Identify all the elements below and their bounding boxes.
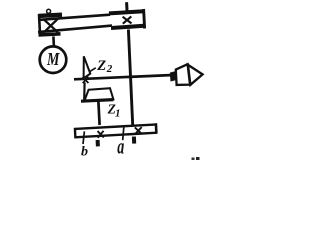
page artifact bottom right <box>192 158 195 161</box>
svg-text:M: M <box>46 51 60 70</box>
stub below bar left <box>96 140 100 146</box>
bottom bar bottom edge <box>75 133 157 138</box>
right bearing top cap <box>109 11 144 13</box>
vertical link below junction <box>83 83 86 101</box>
leader to b <box>83 131 84 144</box>
label a <box>117 134 124 158</box>
leader to a <box>123 127 124 140</box>
svg-text:2: 2 <box>106 63 113 75</box>
housing band bottom line <box>38 26 112 32</box>
left bearing bottom cap <box>39 34 61 35</box>
tool chuck quad <box>176 64 190 85</box>
left bearing left edge <box>39 14 40 36</box>
bevel gear Z2 <box>84 56 91 78</box>
left bearing top cap <box>39 15 63 16</box>
bottom bearing X left <box>98 131 104 138</box>
gear Z1 base thick line <box>81 100 114 102</box>
motor shaft top end circle <box>47 9 51 13</box>
bottom bearing X right <box>135 127 142 134</box>
bevel gear Z1 body <box>84 88 113 101</box>
svg-text:1: 1 <box>115 107 121 119</box>
bottom bar top edge <box>75 124 157 128</box>
leader to Z2 <box>89 68 96 72</box>
right bearing X <box>123 16 132 23</box>
svg-text:a: a <box>117 134 124 158</box>
right bearing right edge <box>144 9 145 29</box>
letter M <box>46 51 60 70</box>
output shaft line <box>74 75 173 79</box>
bottom bar left edge <box>74 128 77 139</box>
motor stem <box>52 36 55 46</box>
stub above right bearing <box>125 2 128 10</box>
svg-text:b: b <box>81 145 88 160</box>
stub below bar right <box>132 137 136 144</box>
housing band top line <box>38 15 110 20</box>
motor circle M <box>40 46 67 73</box>
vertical shaft right <box>128 30 132 126</box>
bearing X left <box>44 19 58 33</box>
junction x-mark <box>83 77 89 84</box>
tool shank blob <box>170 71 176 81</box>
svg-text:Z: Z <box>96 58 106 74</box>
motor shaft top stem <box>47 13 49 16</box>
gear Z1 shaft <box>98 102 99 126</box>
bottom bar right edge <box>155 123 158 133</box>
right bearing bottom cap <box>111 26 144 28</box>
tool tip triangle <box>188 65 203 85</box>
